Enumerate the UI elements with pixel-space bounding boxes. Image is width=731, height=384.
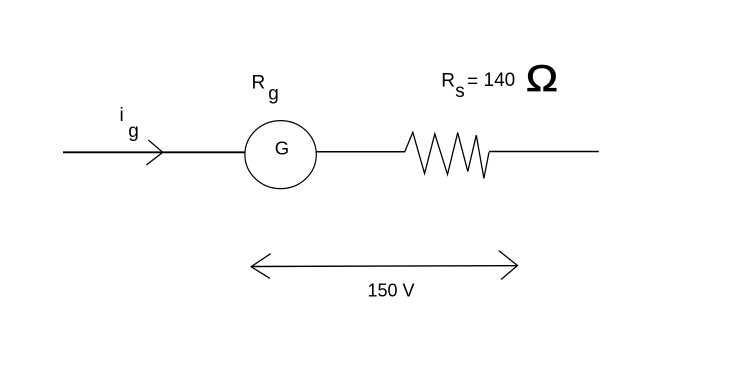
svg-text:=: = bbox=[467, 71, 478, 92]
wire middle segment bbox=[316, 151, 404, 153]
current arrowhead bbox=[146, 140, 162, 165]
voltage measure arrow line bbox=[251, 265, 517, 268]
galvanometer G circle bbox=[245, 121, 316, 189]
resistor Rs zigzag bbox=[405, 132, 490, 178]
svg-text:R: R bbox=[252, 72, 266, 93]
svg-text:s: s bbox=[455, 81, 465, 102]
right arrowhead bbox=[499, 251, 518, 280]
left arrowhead bbox=[251, 254, 271, 279]
wire right segment bbox=[489, 151, 599, 153]
svg-text:i: i bbox=[120, 105, 124, 126]
svg-text:150 V: 150 V bbox=[368, 281, 415, 301]
svg-text:Ω: Ω bbox=[526, 59, 558, 99]
svg-text:G: G bbox=[275, 138, 289, 159]
svg-text:140: 140 bbox=[484, 70, 516, 91]
wire left segment bbox=[63, 151, 245, 153]
svg-text:R: R bbox=[441, 71, 455, 92]
svg-text:g: g bbox=[268, 83, 279, 104]
svg-text:g: g bbox=[128, 121, 139, 142]
